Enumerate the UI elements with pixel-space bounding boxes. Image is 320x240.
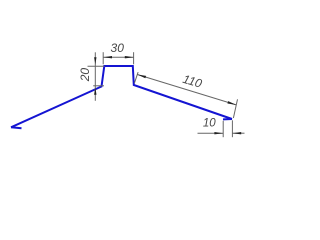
main profile polyline (11, 66, 232, 127)
extension line right (perpendicular to slope) (233, 99, 237, 118)
dimension line right part (232, 132, 244, 134)
dimension line (103, 56, 133, 58)
svg-text:20: 20 (78, 68, 92, 83)
arrow left of 30 (103, 56, 112, 58)
dimension 110 (slope) (134, 72, 237, 118)
extension line bottom (93, 85, 104, 87)
left hem segment (11, 126, 22, 129)
arrow left of 10 (outside, pointing right) (214, 132, 223, 134)
dimension line along slope (137, 75, 236, 105)
dimension line vertical (94, 52, 96, 101)
arrow right of 10 (outside, pointing left) (232, 132, 241, 134)
dimension line left part (198, 132, 224, 134)
extension line left (perpendicular to slope) (134, 72, 138, 83)
extension line left (222, 121, 224, 137)
right hem segment (223, 118, 232, 120)
dimension 20 (left vertical) (88, 52, 105, 101)
dimension 30 (top) (103, 52, 133, 64)
dimension 10 (bottom right) (198, 120, 245, 137)
wire profile: blue flashing outline (11, 66, 232, 128)
extension line right (133, 52, 135, 64)
extension line top (88, 65, 105, 67)
extension line left (102, 52, 104, 64)
arrow top of 20 (94, 57, 96, 64)
arrow bottom of 20 (94, 88, 96, 95)
svg-text:30: 30 (111, 41, 125, 55)
arrow right of 30 (125, 56, 134, 58)
arrow right of 110 (227, 101, 236, 105)
extension line right (231, 120, 233, 137)
svg-text:110: 110 (181, 72, 204, 91)
arrow left of 110 (137, 75, 146, 79)
svg-text:10: 10 (203, 118, 216, 130)
